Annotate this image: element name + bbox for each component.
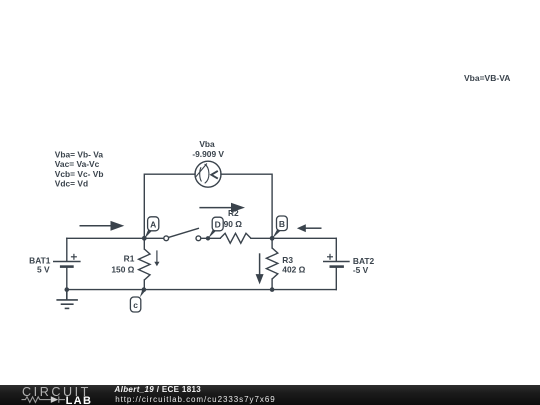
svg-text:5 V: 5 V	[37, 264, 50, 274]
label R2 value	[224, 208, 243, 229]
current arrow beside R3	[256, 253, 264, 284]
resistor R3	[266, 248, 277, 279]
svg-text:Vba=VB-VA: Vba=VB-VA	[464, 73, 510, 83]
footer bar	[0, 385, 540, 405]
wire top loop right	[221, 174, 272, 238]
switch SW1	[164, 228, 201, 241]
wire R3 top lead	[271, 238, 273, 248]
junction node B dot	[270, 236, 275, 241]
svg-text:R3: R3	[282, 255, 293, 265]
wire R1 bottom lead	[143, 280, 145, 290]
footer title text	[110, 385, 540, 405]
resistor R2	[220, 233, 251, 243]
junction R3 bottom dot	[270, 287, 275, 292]
wire R3 bottom lead	[271, 279, 273, 290]
wire BAT1 branch upper	[66, 238, 68, 260]
svg-text:A: A	[150, 219, 156, 229]
svg-text:B: B	[279, 219, 285, 229]
svg-text:-5 V: -5 V	[353, 265, 369, 275]
label R3 value	[282, 255, 305, 275]
svg-text:Vba: Vba	[199, 139, 215, 149]
label BAT2 value	[353, 256, 375, 275]
CircuitLab logo	[0, 385, 110, 405]
annotation equations	[55, 149, 104, 188]
battery BAT1	[53, 254, 81, 267]
battery BAT2	[323, 254, 350, 267]
svg-text:402 Ω: 402 Ω	[282, 265, 305, 275]
wire BAT2 branch lower	[335, 267, 337, 290]
current arrow into node A	[80, 221, 125, 231]
wire R2 to node B to BAT2 corner	[251, 237, 336, 239]
svg-text:Vac= Va-Vc: Vac= Va-Vc	[55, 159, 100, 169]
current arrow into node B	[297, 224, 322, 232]
svg-text:http://circuitlab.com/cu2333s7: http://circuitlab.com/cu2333s7y7x69	[115, 395, 275, 404]
svg-text:Vba= Vb- Va: Vba= Vb- Va	[55, 149, 104, 159]
wire BAT1 branch lower	[66, 267, 68, 290]
label BAT1 value	[29, 255, 51, 274]
svg-text:-9.909 V: -9.909 V	[192, 149, 224, 159]
current arrow beside R1	[154, 250, 159, 266]
svg-text:Vcb= Vc- Vb: Vcb= Vc- Vb	[55, 169, 104, 179]
svg-text:Vdc= Vd: Vdc= Vd	[55, 179, 88, 189]
svg-text:R2: R2	[228, 208, 239, 218]
node D label	[208, 217, 223, 238]
label R1 value	[111, 253, 134, 274]
svg-text:150 Ω: 150 Ω	[111, 264, 134, 274]
label Vba value	[192, 139, 224, 159]
svg-text:R1: R1	[124, 253, 135, 263]
node C label	[130, 289, 145, 312]
junction BAT1 bottom dot	[65, 287, 70, 292]
node B label	[272, 216, 287, 238]
wire R1 top lead	[143, 238, 145, 249]
wire switch to R2	[201, 237, 221, 239]
svg-text:Albert_19 / ECE 1813: Albert_19 / ECE 1813	[114, 385, 202, 394]
wire bottom rail	[67, 289, 337, 291]
svg-text:90 Ω: 90 Ω	[224, 219, 243, 229]
voltmeter VM1 glyph	[196, 164, 218, 184]
annotation Vba=VB-VA	[464, 73, 510, 83]
svg-text:D: D	[215, 219, 221, 229]
wire top loop left	[144, 174, 195, 238]
current arrow above R2	[199, 203, 245, 213]
wire BAT2 branch upper	[335, 238, 337, 260]
resistor R1	[139, 249, 150, 280]
junction node C dot	[142, 287, 147, 292]
node A label	[145, 217, 159, 239]
junction node D dot	[206, 236, 210, 240]
wire BAT1 to node A	[67, 237, 164, 239]
svg-text:c: c	[133, 300, 138, 310]
junction node A dot	[142, 236, 147, 241]
ground	[56, 290, 78, 309]
svg-text:LAB: LAB	[66, 395, 93, 405]
voltmeter VM1 body	[195, 161, 221, 187]
